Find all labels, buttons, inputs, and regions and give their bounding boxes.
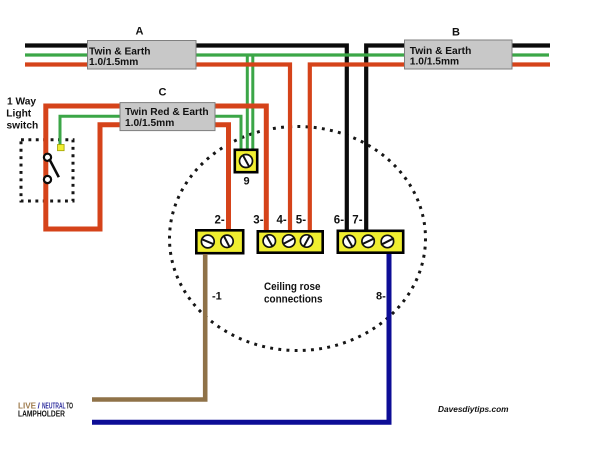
svg-text:3-: 3- [253,215,263,227]
svg-text:C: C [159,87,167,99]
wire green earth horizontal cables A-B [25,53,549,56]
svg-text:4-: 4- [277,215,287,227]
svg-text:Davesdiytips.com: Davesdiytips.com [438,404,509,414]
svg-text:1.0/1.5mm: 1.0/1.5mm [125,118,174,129]
wire black cable B (neutral loop to terminal 7) [366,46,550,232]
svg-text:2-: 2- [215,215,225,227]
svg-text:Ceiling rose: Ceiling rose [264,281,321,293]
svg-text:9: 9 [244,175,250,187]
svg-text:Twin Red & Earth: Twin Red & Earth [125,107,209,118]
light switch dotted box [21,140,73,201]
wire green earth drop from cable A [246,56,249,151]
svg-text:6-: 6- [334,215,344,227]
svg-text:A: A [136,25,144,37]
ceiling rose dotted circle [170,127,426,351]
terminal block 6-7-8 (neutral) [338,231,403,253]
cable label box A [88,41,197,70]
switch contact top [44,154,51,161]
wire green earth drop from cable B [251,56,254,151]
svg-text:TO: TO [66,402,73,411]
svg-text:-1: -1 [212,291,222,303]
svg-text:connections: connections [264,293,323,305]
switch contact bottom [44,176,51,183]
svg-text:7-: 7- [352,215,362,227]
svg-text:switch: switch [7,121,39,132]
svg-text:Light: Light [6,108,31,119]
svg-text:5-: 5- [296,215,306,227]
svg-text:8-: 8- [376,291,386,303]
wire red live cable B to terminal 5 [310,65,550,232]
wire blue neutral to lampholder [92,254,389,422]
earth terminal block 9 [235,150,257,172]
cable label box C [120,103,215,131]
wire red live cable A to terminal 4 [25,65,290,232]
cable label box B [405,40,513,69]
wire red switch loop cable C (terminal 3 to switch to terminal 2) [46,106,266,231]
switch earth terminal yellow square [58,145,65,151]
svg-text:B: B [452,27,460,39]
svg-text:1.0/1.5mm: 1.0/1.5mm [89,57,138,68]
svg-text:Twin & Earth: Twin & Earth [410,46,472,57]
svg-text:LAMPHOLDER: LAMPHOLDER [18,410,65,419]
switch lever [49,159,59,177]
svg-text:1 Way: 1 Way [7,96,36,107]
wire black cable A (neutral loop to terminal 6) [25,46,347,232]
terminal block 2 (switched live) [196,230,243,253]
wire brown switched live to lampholder [92,254,205,400]
terminal block 3-4-5 (live loop) [258,231,323,252]
svg-text:1.0/1.5mm: 1.0/1.5mm [410,57,459,68]
svg-text:Twin & Earth: Twin & Earth [89,46,151,57]
wire green earth cable C (switch earth to terminal 9) [60,116,241,151]
